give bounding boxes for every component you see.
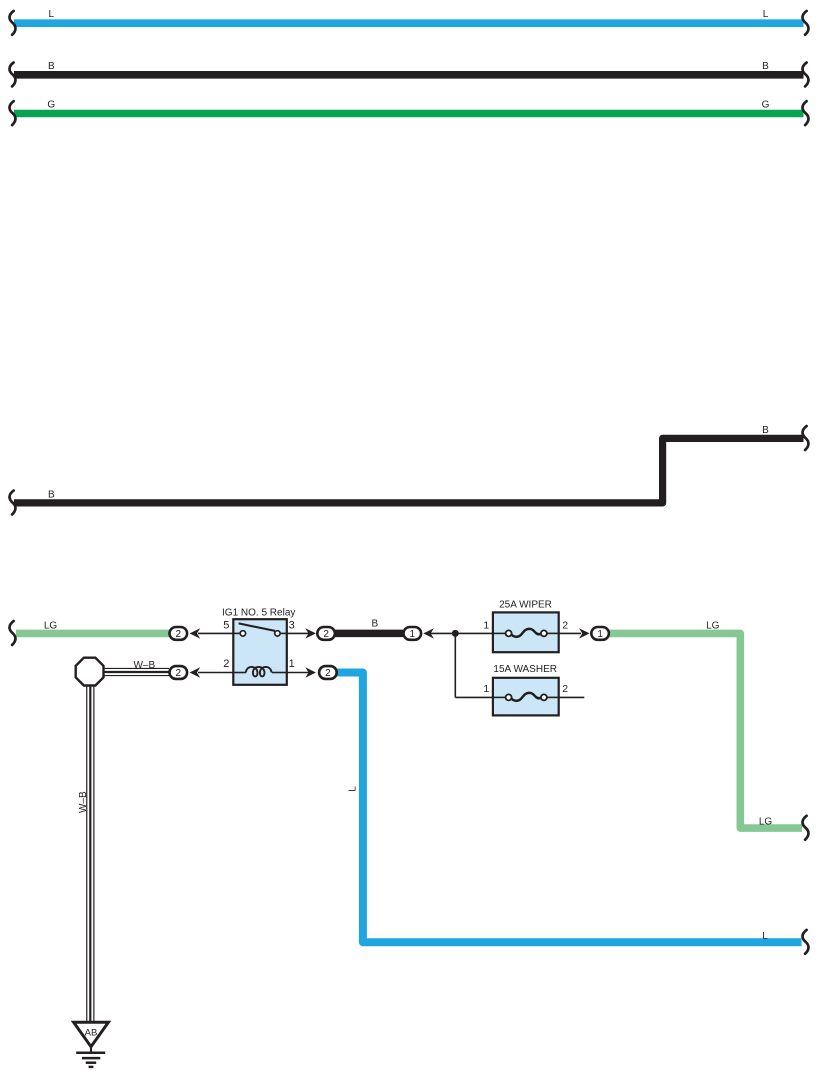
svg-text:1: 1 (410, 629, 416, 640)
svg-text:AB: AB (85, 1028, 98, 1039)
svg-text:1: 1 (289, 658, 295, 670)
svg-text:2: 2 (323, 629, 329, 640)
svg-text:2: 2 (176, 668, 182, 679)
svg-text:B: B (762, 425, 769, 436)
svg-text:B: B (48, 490, 55, 501)
svg-text:2: 2 (223, 658, 229, 670)
svg-text:IG1 NO. 5 Relay: IG1 NO. 5 Relay (222, 608, 295, 619)
svg-text:W–B: W–B (78, 791, 89, 813)
svg-text:1: 1 (597, 629, 603, 640)
svg-text:LG: LG (706, 621, 720, 632)
svg-text:1: 1 (483, 683, 489, 695)
svg-text:B: B (762, 61, 769, 72)
svg-text:B: B (48, 61, 55, 72)
svg-text:2: 2 (562, 619, 568, 631)
svg-text:B: B (371, 619, 378, 630)
svg-text:G: G (47, 100, 55, 111)
svg-text:LG: LG (759, 816, 773, 827)
svg-text:25A WIPER: 25A WIPER (499, 600, 552, 611)
svg-text:L: L (347, 786, 358, 792)
svg-text:1: 1 (483, 619, 489, 631)
svg-text:L: L (763, 9, 769, 20)
svg-text:2: 2 (325, 668, 331, 679)
svg-text:2: 2 (176, 629, 182, 640)
svg-text:L: L (49, 9, 55, 20)
svg-text:L: L (762, 931, 768, 942)
svg-text:3: 3 (289, 620, 295, 632)
svg-text:W–B: W–B (133, 660, 155, 671)
svg-text:15A WASHER: 15A WASHER (493, 664, 557, 675)
svg-text:G: G (762, 100, 770, 111)
svg-text:LG: LG (44, 621, 58, 632)
svg-text:5: 5 (223, 620, 229, 632)
svg-text:2: 2 (562, 683, 568, 695)
